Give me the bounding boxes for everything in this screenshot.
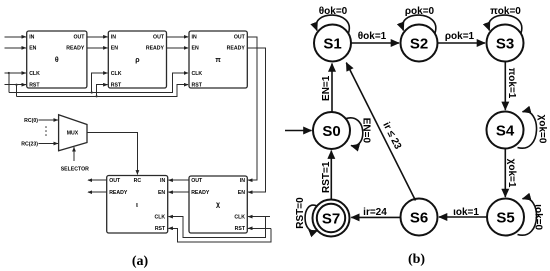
svg-text:χok=1: χok=1 [506,159,517,188]
svg-text:S4: S4 [496,122,515,139]
svg-text:θ: θ [55,57,59,64]
wire SELECTOR input [61,147,89,172]
wire RC(23) input [21,141,58,147]
wire chi READY to iota EN [169,191,190,193]
svg-text:RC(23): RC(23) [21,141,38,147]
svg-text:ρok=0: ρok=0 [405,6,435,17]
svg-text:EN=0: EN=0 [361,118,372,144]
svg-text:CLK: CLK [155,215,166,221]
wire S1 self-loop theta ok=0 [316,6,349,33]
svg-text:πok=0: πok=0 [490,6,521,17]
wire EN input to theta [5,47,26,49]
wire RC(0) input [24,118,58,124]
block theta [27,31,87,89]
svg-text:S0: S0 [322,123,340,140]
svg-text:EN: EN [192,46,199,52]
node rho CLK junction [91,91,93,93]
svg-text:ir=24: ir=24 [363,207,387,218]
state S4 [487,112,524,149]
state S0 [313,112,350,149]
svg-text:S1: S1 [323,35,341,52]
wire CLK bus drop [8,73,10,93]
svg-text:EN: EN [29,46,36,52]
block iota [107,176,168,234]
block pi [189,31,247,89]
wire S1 to S2 theta ok=1 [351,31,399,43]
wire CLK rail to pi [9,73,188,93]
svg-text:S7: S7 [322,210,340,227]
svg-text:EN: EN [158,190,165,196]
svg-text:EN=1: EN=1 [321,75,332,101]
svg-text:OUT: OUT [73,35,85,41]
svg-text:ρok=1: ρok=1 [445,31,475,42]
wire S6 to S7 ir=24 [351,207,400,218]
svg-text:(a): (a) [132,254,149,269]
node ellipsis dots [45,126,47,136]
svg-text:RST: RST [155,226,166,232]
wire S0 self-loop EN=0 [346,118,372,146]
svg-text:RST: RST [29,83,40,89]
svg-text:READY: READY [146,46,165,52]
wire S5 to S6 iota ok=1 [439,207,487,218]
state S3 [487,25,524,62]
block chi [189,176,247,233]
svg-text:CLK: CLK [111,71,122,77]
svg-text:RST: RST [235,226,246,232]
state S6 [401,199,438,236]
svg-text:EN: EN [238,190,245,196]
state S2 [401,25,438,62]
svg-text:OUT: OUT [191,178,203,184]
wire S7 to S0 RST=1 [321,151,332,200]
svg-text:CLK: CLK [29,71,40,77]
state S1 [314,25,351,62]
svg-text:IN: IN [111,35,116,41]
svg-text:θok=0: θok=0 [319,6,348,17]
svg-text:CLK: CLK [234,215,245,221]
state S7 [313,200,350,237]
svg-text:CLK: CLK [192,71,203,77]
wire CLK chain to iota [169,217,266,238]
node rho RST junction [96,95,98,97]
wire iota OUT output [88,179,107,181]
svg-text:π: π [215,57,221,64]
wire RST bus drop [16,85,18,97]
svg-text:RST=0: RST=0 [295,197,306,229]
wire S0 to S1 EN=1 [321,64,332,112]
wire S4 self-loop chi ok=0 [518,111,548,148]
wire S2 self-loop rho ok=0 [403,6,436,33]
svg-text:RC: RC [134,178,142,184]
block rho [108,31,166,89]
svg-text:OUT: OUT [153,35,165,41]
svg-text:ι: ι [136,202,138,209]
svg-text:EN: EN [111,46,118,52]
svg-text:RST=1: RST=1 [321,161,332,193]
wire rho OUT to pi IN [167,36,189,38]
svg-text:READY: READY [227,46,246,52]
wire S4 to S5 chi ok=1 [505,149,517,197]
wire S3 self-loop pi ok=0 [489,6,522,33]
svg-text:RST: RST [111,83,122,89]
wire chi OUT to iota IN [169,179,190,181]
svg-text:READY: READY [66,46,85,52]
wire rho READY to pi EN [167,47,189,49]
svg-text:S2: S2 [410,35,428,52]
svg-text:IN: IN [29,35,34,41]
svg-text:RC(0): RC(0) [24,118,38,124]
svg-text:S6: S6 [410,209,428,226]
wire RST input to theta [5,84,26,86]
wire initial arrow to S0 [285,130,312,132]
wire S2 to S3 rho ok=1 [438,31,485,43]
svg-text:RST: RST [192,83,203,89]
svg-text:MUX: MUX [67,131,79,137]
svg-text:θok=1: θok=1 [358,31,387,42]
wire iota READY output [88,191,107,193]
svg-text:χok=0: χok=0 [537,115,548,144]
svg-text:χ: χ [216,202,220,209]
svg-text:READY: READY [191,190,210,196]
wire MUX out to iota RC [87,133,137,175]
wire CLK input to theta [5,72,26,74]
svg-text:ιok=0: ιok=0 [533,204,544,230]
node CLK junction [8,72,10,74]
svg-text:OUT: OUT [234,35,246,41]
wire chi CLK stub [248,216,270,218]
svg-text:IN: IN [240,178,245,184]
wire S6 to S1 ir<=23 [346,63,415,201]
wire RST rail to pi [17,85,189,97]
svg-text:S3: S3 [496,35,514,52]
wire RST riser to rho [97,85,108,97]
wire pi OUT to chi IN [247,37,257,180]
svg-text:(b): (b) [408,252,425,267]
wire pi READY to chi EN [247,48,265,192]
svg-text:ιok=1: ιok=1 [453,207,479,218]
wire S3 to S4 pi ok=1 [505,62,517,110]
wire chi RST stub [248,227,271,229]
mux MUX [59,115,87,151]
svg-text:SELECTOR: SELECTOR [61,167,89,173]
svg-text:ρ: ρ [135,57,140,64]
wire CLK riser to rho [92,73,108,93]
svg-text:IN: IN [192,35,197,41]
svg-text:πok=1: πok=1 [506,68,517,99]
wire S7 self-loop RST=0 [295,197,318,231]
wire theta READY to rho EN [87,47,108,49]
wire S5 self-loop iota ok=0 [518,198,544,235]
wire theta OUT to rho IN [87,36,108,38]
wire IN input to theta [5,36,26,38]
svg-text:S5: S5 [496,209,514,226]
wire RST chain to iota [169,228,271,242]
svg-text:READY: READY [109,190,128,196]
svg-text:OUT: OUT [109,178,121,184]
node RST junction [15,84,17,86]
svg-text:IN: IN [160,178,165,184]
state S5 [487,199,524,236]
